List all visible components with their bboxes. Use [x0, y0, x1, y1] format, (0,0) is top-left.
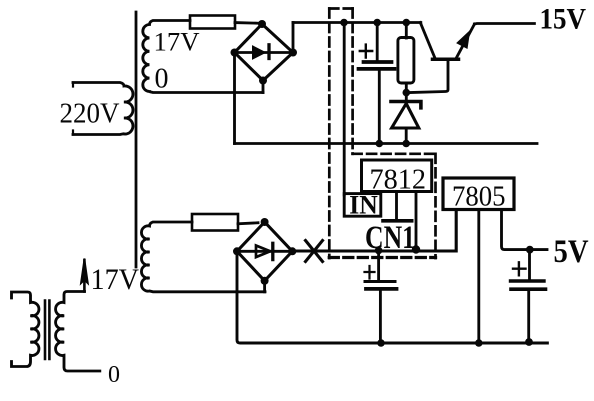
svg-text:5V: 5V	[554, 234, 589, 270]
svg-text:CN1: CN1	[365, 220, 415, 256]
svg-text:17V: 17V	[154, 28, 200, 57]
svg-text:0: 0	[155, 64, 169, 95]
svg-text:IN: IN	[349, 189, 378, 219]
svg-text:7805: 7805	[452, 182, 506, 213]
svg-text:15V: 15V	[540, 2, 587, 35]
svg-text:0: 0	[108, 362, 120, 388]
svg-text:17V: 17V	[91, 263, 140, 296]
svg-text:7812: 7812	[370, 164, 427, 195]
svg-text:220V: 220V	[60, 97, 120, 129]
